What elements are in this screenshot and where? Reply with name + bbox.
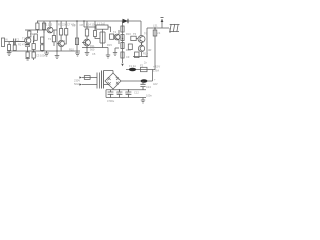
bridge rectifier B1 (105, 73, 121, 89)
wire secondary top (104, 71, 114, 74)
svg-text:560: 560 (90, 48, 95, 52)
svg-text:230V: 230V (74, 79, 80, 83)
svg-text:C13: C13 (146, 85, 151, 89)
transistor Q4 (84, 39, 91, 46)
svg-text:T3: T3 (62, 39, 66, 43)
ground Q1 emitter (26, 59, 30, 61)
wire vertical x87 collector (86, 21, 88, 39)
svg-text:50Hz: 50Hz (74, 82, 81, 86)
connector LS1 loudspeaker (169, 24, 179, 32)
resistor R17 column (121, 35, 124, 41)
wire speaker line (147, 27, 169, 29)
diode D1 on rail (123, 19, 129, 24)
svg-text:R3 22k: R3 22k (58, 23, 67, 27)
svg-text:R16: R16 (126, 32, 131, 36)
transistor Q5 driver (114, 34, 120, 40)
svg-text:42V: 42V (153, 82, 158, 86)
wire negative feed line (126, 69, 155, 71)
ground mid2 x57 (55, 56, 60, 59)
svg-text:R11: R11 (90, 44, 95, 48)
resistor R4 divider (32, 52, 35, 58)
wire vertical x162 from plus arrow (161, 19, 163, 28)
svg-text:R18: R18 (126, 48, 131, 52)
capacitor C2 under Q1 (25, 45, 30, 47)
ground x77 (75, 53, 80, 56)
svg-text:C3 100n: C3 100n (36, 54, 46, 58)
resistor R23 zobel (153, 30, 157, 36)
mains arrows 230V (79, 76, 82, 85)
wire secondary bottom (104, 84, 109, 86)
wire vertical x77 (76, 21, 78, 52)
resistor R1b shunt (13, 45, 16, 51)
svg-text:R9: R9 (72, 24, 76, 28)
ground x108 (106, 55, 110, 58)
wire output emitter line (133, 56, 147, 58)
ground cap bank (141, 98, 145, 104)
svg-text:T4: T4 (113, 30, 117, 34)
capacitor C1 input (10, 39, 25, 46)
resistor R7 (34, 34, 37, 40)
wire top supply rail (37, 20, 141, 22)
svg-text:R15: R15 (107, 43, 112, 47)
capacitor C6 (126, 90, 132, 98)
resistor R8 (41, 37, 44, 43)
resistor R19 column (121, 52, 124, 58)
resistor R5 hanging from rail (36, 23, 39, 30)
svg-text:4700u: 4700u (107, 99, 115, 103)
transistor Q7 output (138, 45, 144, 51)
resistor R1 to ground (8, 45, 11, 51)
transistor Q2 (47, 27, 53, 33)
svg-text:C1: C1 (16, 38, 20, 42)
resistor R6 hanging from rail (42, 23, 45, 30)
transistor Q1 (25, 37, 31, 43)
ground Q4 (85, 53, 90, 56)
resistor R10 (60, 29, 63, 36)
resistor R11 (65, 29, 68, 36)
svg-text:T5: T5 (133, 32, 137, 36)
wire x147 (146, 28, 148, 57)
resistor R18 column (121, 43, 124, 49)
fuse F2 box (141, 67, 148, 71)
svg-text:+: + (154, 79, 156, 82)
resistor R22 (135, 52, 139, 58)
wire mid feedback line (82, 47, 108, 49)
svg-text:R10: R10 (69, 48, 74, 52)
svg-text:R14 100: R14 100 (86, 23, 96, 27)
svg-text:C9: C9 (126, 55, 130, 59)
svg-text:2x: 2x (144, 61, 147, 65)
ground under x115 (113, 53, 117, 56)
svg-text:LS: LS (157, 31, 160, 35)
resistor R20 base feed (131, 36, 136, 40)
svg-text:C11: C11 (125, 91, 130, 95)
svg-text:4R: 4R (148, 48, 151, 52)
svg-text:IN: IN (5, 38, 8, 42)
resistor R16 column (121, 26, 124, 32)
wire vertical x57 (56, 21, 58, 56)
svg-text:F1 2A: F1 2A (129, 64, 136, 68)
wire bridge bottom to cap rail (112, 88, 114, 91)
ground input (7, 53, 12, 56)
resistor R25 (94, 31, 97, 37)
wire vertical x155 output node (154, 28, 156, 70)
connector input jack (2, 38, 5, 47)
fuse F1 filled (129, 68, 136, 71)
svg-text:L1 2u2: L1 2u2 (97, 22, 105, 26)
resistor R13 horizontal box under rail (96, 25, 108, 29)
capacitor bank rails (106, 90, 146, 98)
resistor R3 divider (32, 44, 35, 50)
resistor R24 above Q4 (85, 29, 88, 36)
wire vertical x44 (43, 21, 45, 51)
wire vertical x122.5 output column (122, 21, 124, 63)
resistor R9 (52, 36, 55, 42)
supply arrow up +V (161, 19, 164, 22)
transistor Q6 output (138, 36, 145, 43)
svg-text:C8: C8 (80, 23, 84, 27)
svg-text:1,6A: 1,6A (153, 69, 159, 73)
svg-text:T2: T2 (48, 37, 52, 41)
resistor R21 (128, 44, 132, 50)
wire x108 drop (107, 48, 109, 56)
capacitor C3 (110, 34, 114, 39)
wire positive line from bridge (121, 80, 153, 82)
svg-text:C10: C10 (116, 91, 121, 95)
wire sub rail (25, 29, 57, 31)
transistor Q3 (58, 40, 64, 46)
wire supply riser (152, 70, 154, 82)
svg-text:R2: R2 (30, 32, 34, 36)
capacitor C7 (140, 81, 145, 90)
resistor R2 emitter (26, 52, 29, 58)
svg-text:100n: 100n (146, 94, 152, 98)
svg-text:C5: C5 (92, 52, 96, 56)
fuse F3 filled (141, 79, 148, 82)
transformer TR1 (82, 78, 97, 85)
capacitor C5 (117, 90, 123, 98)
svg-text:R19: R19 (143, 52, 148, 56)
text labels (smudges) (5, 22, 160, 104)
resistor ladder R14 R15 (100, 32, 105, 43)
wire bottom rail (7, 50, 80, 52)
junction dots (33, 20, 156, 90)
capacitor C4 (108, 90, 114, 98)
svg-text:R2 47k: R2 47k (18, 43, 27, 47)
wire vertical x170 stub (169, 28, 171, 33)
supply arrow down -V (121, 64, 123, 67)
svg-text:LS1: LS1 (153, 24, 158, 28)
svg-text:R1 1k5: R1 1k5 (44, 23, 53, 27)
wire input signal line (5, 41, 25, 43)
resistor R12 on x77 (75, 38, 78, 45)
ground mid1 (44, 53, 49, 56)
svg-text:C12: C12 (134, 91, 139, 95)
wire vertical x141 to output transistor (140, 21, 142, 36)
